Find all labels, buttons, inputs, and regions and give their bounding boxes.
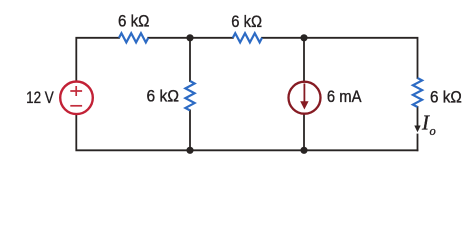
svg-text:6 kΩ: 6 kΩ (147, 88, 180, 106)
resistor R2 6 kOhm top-right zigzag (233, 33, 262, 42)
wire top between R1 and node A (148, 37, 190, 39)
resistor R1 6 kOhm top-left zigzag (119, 33, 148, 42)
resistor R3 6 kOhm middle vertical zigzag (185, 81, 194, 110)
node D (bottom right junction) (300, 147, 307, 154)
wire current source branch bottom (I1 to bottom rail) (303, 114, 305, 150)
wire left rail top (source top to top-left corner to R1) (76, 38, 119, 82)
svg-text:6 mA: 6 mA (327, 88, 362, 106)
svg-text:12 V: 12 V (26, 89, 54, 107)
wire right below Io arrow to bottom-right corner (417, 135, 419, 151)
voltage source plus sign (70, 86, 82, 96)
svg-text:6 kΩ: 6 kΩ (231, 13, 262, 31)
wire current source branch top (node B to I1) (303, 38, 305, 82)
resistor R4 6 kOhm right vertical zigzag (413, 78, 422, 107)
voltage source minus sign (70, 105, 82, 107)
node A (top middle junction) (186, 34, 193, 41)
wire middle branch top (node A to R3) (189, 38, 191, 81)
node B (top right junction) (300, 34, 307, 41)
wire right below R4 to Io arrow (417, 107, 419, 128)
wire middle branch bottom (R3 to bottom rail) (189, 110, 191, 150)
current source arrow shaft (303, 84, 305, 102)
current source arrowhead (300, 101, 308, 109)
wire top R2 to node B (262, 37, 304, 39)
wire bottom rail (76, 115, 417, 150)
current source I1 6mA circle (289, 82, 321, 114)
Io arrowhead on right branch (414, 126, 420, 133)
wire top node A to R2 (190, 37, 233, 39)
svg-text:6 kΩ: 6 kΩ (430, 89, 462, 107)
voltage source V1 12V circle (60, 82, 93, 115)
svg-text:6 kΩ: 6 kΩ (118, 13, 150, 31)
wire top node B to top-right corner down to R4 (304, 38, 418, 78)
node C (bottom middle junction) (186, 147, 193, 154)
svg-text:o: o (430, 124, 436, 138)
